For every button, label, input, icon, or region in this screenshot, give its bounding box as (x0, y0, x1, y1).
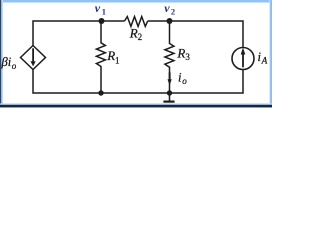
svg-text:βi: βi (1, 55, 12, 69)
node v1 dot (99, 18, 105, 24)
resistor R2 (horizontal zigzag) (125, 17, 148, 27)
resistor R3 (vertical) (165, 21, 174, 93)
svg-text:1: 1 (102, 7, 106, 17)
label i_A (258, 50, 268, 66)
frame top border (0, 0, 272, 3)
label R1 (106, 48, 119, 65)
svg-text:A: A (261, 56, 268, 66)
svg-text:2: 2 (171, 7, 175, 17)
frame bottom border (0, 103, 272, 105)
label R3 (176, 45, 190, 61)
svg-text:v: v (95, 1, 101, 15)
svg-text:o: o (12, 61, 17, 71)
svg-text:R: R (176, 45, 185, 60)
svg-text:1: 1 (115, 56, 120, 66)
current arrow i_o on R3 branch (168, 72, 172, 85)
svg-text:R: R (129, 25, 138, 40)
junction dot bottom-right (R3/ground) (167, 90, 172, 95)
frame right border (269, 0, 272, 106)
svg-text:2: 2 (138, 32, 143, 42)
svg-text:R: R (106, 48, 115, 63)
wire bottom (33, 69, 243, 93)
wire top-right segment (148, 21, 243, 48)
arrow inside current source (241, 48, 246, 68)
independent current source i_A (circle) (232, 48, 254, 70)
resistor R1 (vertical) (96, 21, 105, 93)
arrow inside dependent source (31, 48, 36, 66)
frame left border (0, 0, 3, 106)
node v2 dot (167, 18, 173, 24)
label i_o (178, 71, 187, 87)
label βi_o (1, 55, 17, 71)
svg-text:v: v (164, 1, 170, 15)
svg-text:3: 3 (185, 52, 190, 62)
junction dot bottom-left (R1/bottom wire) (98, 90, 103, 95)
dependent current source βi_o (diamond) (21, 46, 46, 70)
node v1 label (95, 1, 106, 17)
node v2 label (164, 1, 175, 17)
ground (163, 93, 174, 102)
wire top-left segment (v1 corner to zigzag) (33, 21, 125, 46)
label R2 (129, 25, 142, 42)
svg-text:o: o (182, 76, 187, 86)
